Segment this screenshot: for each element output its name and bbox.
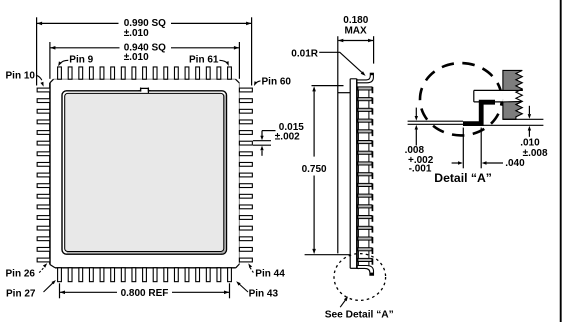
dimension 0.800 REF (pin 27 to pin 43 centers) — [60, 283, 230, 299]
detail A break line across lead slot — [516, 89, 522, 105]
dimension 0.015 +/-.002 (lead width) — [253, 122, 304, 156]
side view top lead (bent up, 0.01R) — [357, 73, 374, 83]
svg-text:Pin 10: Pin 10 — [6, 70, 36, 81]
svg-text:±.010: ±.010 — [124, 52, 149, 63]
svg-text:Pin 44: Pin 44 — [255, 269, 285, 280]
pin 1 index notch on top face — [139, 88, 151, 94]
label Pin 10 with leader — [6, 70, 44, 86]
detail A seating plane line — [463, 124, 543, 126]
svg-text:MAX: MAX — [344, 25, 367, 36]
svg-text:.040: .040 — [505, 158, 525, 169]
svg-text:Detail “A”: Detail “A” — [434, 171, 492, 185]
svg-text:0.750: 0.750 — [302, 164, 327, 175]
side view bottom lead (gull-wing, circled) — [357, 266, 373, 276]
dotted circle marking detail A region — [334, 254, 386, 301]
detail A package body break (hatched grey, lower) — [503, 101, 522, 119]
svg-text:Pin 60: Pin 60 — [262, 76, 292, 87]
label Pin 43 with leader — [236, 281, 278, 299]
dimension .008 +.002 -.001 (lead thickness) — [405, 108, 434, 175]
package top face (inner square, outer line) — [62, 91, 227, 254]
dimension .010 +/-.008 (stand-off) — [520, 106, 548, 159]
dimension 0.180 MAX (package height) — [338, 15, 374, 64]
label Pin 61 with leader — [189, 55, 229, 66]
bottom pin row (pins 27..43) — [58, 268, 232, 282]
detail A package body break (hatched grey, upper) — [503, 70, 522, 90]
svg-text:Pin 27: Pin 27 — [6, 288, 36, 299]
label Pin 44 with leader — [248, 263, 285, 279]
detail A package bottom line — [503, 118, 544, 120]
label Pin 9 with leader — [58, 55, 93, 67]
svg-text:±.010: ±.010 — [124, 28, 149, 39]
svg-text:0.01R: 0.01R — [291, 48, 318, 59]
svg-text:±.002: ±.002 — [275, 131, 300, 142]
svg-text:0.800 REF: 0.800 REF — [121, 288, 169, 299]
side view lead stack (17 leads edge-on) — [358, 87, 373, 269]
detail A highlighted bent lead (thick) — [463, 102, 495, 123]
dimension 0.750 (lead span) — [302, 86, 351, 255]
label Pin 27 with leader — [6, 280, 56, 299]
svg-text:Pin 61: Pin 61 — [189, 55, 219, 66]
svg-text:Pin 43: Pin 43 — [249, 288, 279, 299]
dimension .040 (foot length) — [452, 128, 526, 169]
dimension 0.940 SQ +/-.010 (body size) — [50, 42, 240, 79]
label 0.01R with leader (lead bend radius) — [291, 48, 365, 76]
page border line (right) — [560, 0, 562, 322]
right pin column (pins 60..44) — [239, 88, 252, 262]
svg-text:Pin 9: Pin 9 — [69, 55, 93, 66]
detail A lead shank (cross-section) — [474, 90, 503, 102]
detail A dashed circle — [420, 63, 502, 135]
label See Detail A with leader — [325, 296, 394, 320]
svg-text:-.001: -.001 — [409, 163, 432, 174]
QFP package body outline (top view) — [50, 79, 240, 268]
svg-text:Pin 26: Pin 26 — [6, 269, 36, 280]
svg-text:See Detail “A”: See Detail “A” — [325, 309, 394, 320]
top pin row (pins 9..1,68..61) — [58, 67, 232, 79]
detail A lead foot surfaces — [408, 121, 463, 124]
side view molded body profile — [338, 79, 358, 268]
package top face raised center with grey fill — [65, 93, 224, 251]
side view left extension line / lead tip line — [337, 36, 339, 253]
label Pin 60 with leader — [254, 76, 291, 87]
svg-text:±.008: ±.008 — [523, 148, 548, 159]
left pin column (pins 10..26) — [37, 88, 50, 262]
label Pin 26 with leader — [6, 263, 48, 279]
top face shadow band (right and bottom) — [67, 95, 225, 253]
dimension 0.990 SQ +/-.010 (lead tip to lead tip) — [37, 17, 252, 85]
